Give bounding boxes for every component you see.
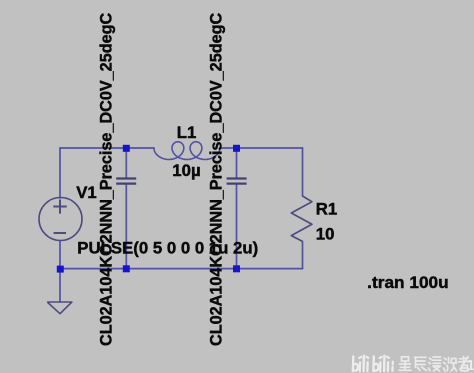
svg-text:L1: L1 xyxy=(177,123,197,142)
capacitor C1 plates xyxy=(116,179,136,184)
bilibili watermark logo xyxy=(353,356,393,371)
capacitor C2 plates xyxy=(227,179,247,184)
resistor R1 zigzag body xyxy=(291,196,312,241)
wire top-right horizontal xyxy=(220,147,303,149)
capacitor C2 leads xyxy=(236,148,238,178)
svg-text:10: 10 xyxy=(316,225,335,244)
wire bottom horizontal xyxy=(60,268,303,270)
wire top-left horizontal xyxy=(60,147,154,149)
inductor L1 coil xyxy=(154,142,220,160)
svg-text:10µ: 10µ xyxy=(172,161,200,180)
wire right vertical top (lead of R1) xyxy=(302,148,304,196)
svg-text:CL02A104KO2NNN_Precise_DC0V_25: CL02A104KO2NNN_Precise_DC0V_25degC xyxy=(97,13,115,346)
wire right vertical bottom (lead of R1) xyxy=(302,242,304,269)
svg-text:1: 1 xyxy=(467,357,474,373)
junction node bottom V1/ground xyxy=(57,266,64,273)
junction node top C2 xyxy=(233,145,240,152)
voltage source V1 circle xyxy=(39,198,82,241)
svg-text:.tran 100u: .tran 100u xyxy=(367,273,449,292)
ground symbol xyxy=(47,302,72,314)
junction node top C1 xyxy=(123,145,130,152)
wire left vertical (top lead of V1) xyxy=(59,148,61,198)
svg-text:V1: V1 xyxy=(76,183,97,202)
svg-text:R1: R1 xyxy=(316,200,337,219)
junction node bottom C1 xyxy=(123,265,130,272)
watermark username text (CJK approximation) xyxy=(399,356,470,371)
junction node bottom C2 xyxy=(233,265,240,272)
V1 minus sign xyxy=(54,232,66,234)
wire bottom lead of V1 xyxy=(59,241,61,303)
capacitor C1 leads xyxy=(125,148,127,178)
svg-text:CL02A104KO2NNN_Precise_DC0V_25: CL02A104KO2NNN_Precise_DC0V_25degC xyxy=(207,13,225,346)
V1 plus sign xyxy=(53,200,67,214)
